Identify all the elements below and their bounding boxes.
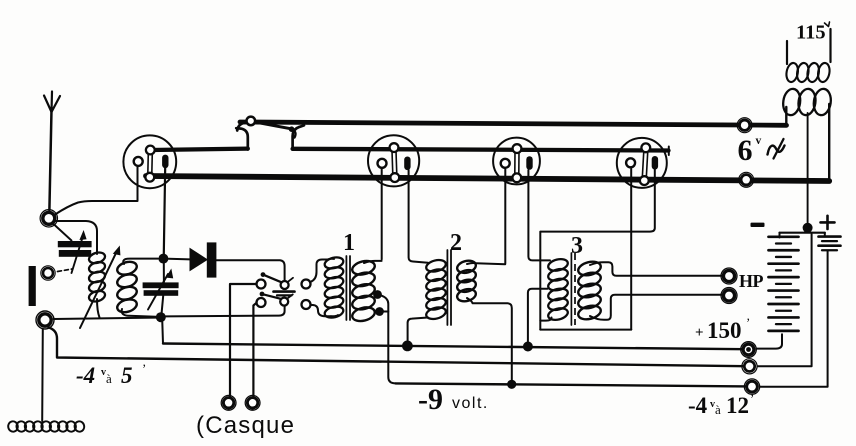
wire -9 volt line xyxy=(396,383,749,386)
wire V3 grid down xyxy=(504,169,506,264)
switch J1 upper right contact xyxy=(281,281,289,289)
switch J1 lower tick xyxy=(288,294,293,298)
coupling arrow L1-L2 xyxy=(80,252,117,328)
svg-text:volt.: volt. xyxy=(452,395,489,412)
switch J1 lower left contact xyxy=(257,298,266,307)
tube V1 xyxy=(123,135,176,188)
capacitor C2 bottom plate xyxy=(144,290,179,296)
transformer 2 core xyxy=(446,250,448,325)
wire T1 secondary top to V2 grid xyxy=(364,261,382,263)
node battery center tap xyxy=(803,223,813,233)
switch J1 lower blade xyxy=(263,294,281,299)
wire B+ node to T3 primary xyxy=(528,289,548,342)
svg-text:-4: -4 xyxy=(76,363,95,388)
wire battery top bar xyxy=(780,232,825,234)
wire V4 grid down box right edge xyxy=(630,169,632,330)
transformer 2 primary xyxy=(425,258,447,273)
terminal HP lower xyxy=(723,290,734,301)
wire C2 bottom to node B xyxy=(162,296,164,313)
terminal HP upper xyxy=(723,270,734,281)
wire middle bus right end tick xyxy=(668,147,670,156)
wire middle filament bus right segment xyxy=(293,149,669,151)
capacitor C1 dashed link to spare terminal xyxy=(58,269,73,272)
svg-text:12: 12 xyxy=(726,393,749,418)
capacitor C1 arrow xyxy=(72,236,84,273)
terminal T1 primary upper xyxy=(302,280,311,289)
svg-text:6: 6 xyxy=(738,134,753,167)
terminal T1 primary lower xyxy=(302,300,311,309)
terminal spare earth xyxy=(43,268,53,278)
svg-text:’: ’ xyxy=(746,315,750,330)
wire antenna terminal to L1 top xyxy=(56,221,98,254)
wire L2 bottom to node B xyxy=(122,309,156,317)
battery bias small stack xyxy=(819,235,841,238)
transformer 2 secondary xyxy=(456,259,477,275)
svg-text:à: à xyxy=(106,371,112,386)
tube V3 xyxy=(493,138,540,185)
wire top bus left end curl xyxy=(237,123,246,131)
transformer 3 primary xyxy=(547,257,569,272)
svg-text:1: 1 xyxy=(343,230,355,256)
capacitor C1 top plate xyxy=(58,241,92,247)
wire D1 to switch upper contact xyxy=(217,260,285,281)
diode D1 triangle xyxy=(190,248,209,272)
inductor L2 secondary coil xyxy=(116,260,139,277)
node A junction xyxy=(158,254,168,264)
wire tap dot lower stub xyxy=(381,311,388,313)
transformer 1 secondary tap dot upper xyxy=(373,290,382,299)
switch J1 link bars xyxy=(274,290,295,293)
svg-text:+: + xyxy=(695,325,704,341)
node B junction xyxy=(156,312,166,322)
wire bottom bus right end up to 115V secondary xyxy=(828,104,830,181)
wire top bus right end up to 115V secondary xyxy=(785,107,787,126)
wire +150 line xyxy=(163,344,744,350)
transformer 1 secondary xyxy=(351,259,376,277)
wire box jog to T3 primary bottom xyxy=(540,318,551,321)
wire T3 secondary top to HP upper xyxy=(590,262,722,276)
capacitor C2 top plate xyxy=(143,282,179,288)
switch S1 left stub hook xyxy=(236,128,248,149)
svg-text:’: ’ xyxy=(750,391,754,406)
terminal +150 xyxy=(743,344,754,355)
transformer 115 secondary xyxy=(782,88,802,116)
tube V4 xyxy=(617,138,667,188)
terminal casque right xyxy=(247,398,257,408)
wire T1 primary upper lead xyxy=(310,260,327,283)
wire earth terminal down xyxy=(41,329,44,421)
transformer 1 core xyxy=(345,256,347,320)
wire earth terminal to node B xyxy=(54,318,157,319)
svg-text:(Casque: (Casque xyxy=(196,412,295,439)
terminal minus battery xyxy=(744,361,754,371)
wire node A to C2 top xyxy=(163,263,165,282)
wire minus line from earth terminal xyxy=(49,328,745,367)
node B+ junction V3 xyxy=(523,342,533,352)
chassis bar xyxy=(29,266,36,306)
wire T1 primary bottom hook xyxy=(331,315,338,316)
transformer 115 lead left xyxy=(786,41,788,64)
node B+ junction V2 xyxy=(402,341,413,352)
label plus xyxy=(821,221,835,224)
node -9v junction xyxy=(507,380,516,389)
wire middle filament bus left segment xyxy=(152,149,248,150)
switch S1 pivot xyxy=(247,117,256,126)
svg-text:HP: HP xyxy=(739,271,764,291)
wire bias terminal to small battery xyxy=(760,251,828,387)
svg-text:-9: -9 xyxy=(418,383,443,416)
transformer 3 core xyxy=(570,253,572,325)
switch J1 upper left contact xyxy=(257,280,266,289)
switch J1 upper tick xyxy=(288,278,293,282)
wire node A to D1 xyxy=(168,258,190,261)
svg-text:-4: -4 xyxy=(688,393,708,418)
terminal 6V lower xyxy=(741,175,751,185)
wire antenna terminal to V1 grid xyxy=(55,167,138,215)
wire small battery top link xyxy=(824,233,826,237)
ground xyxy=(7,420,19,432)
wire L2 top to node A xyxy=(123,259,158,264)
wire node B to switch lower contact xyxy=(166,306,285,316)
wire J1 upper left to casque terminal xyxy=(230,284,257,396)
svg-text:115: 115 xyxy=(796,22,826,44)
transformer 1 primary xyxy=(324,256,345,271)
capacitor C1 bottom plate xyxy=(59,250,91,257)
wire T3 secondary bottom to HP lower xyxy=(590,295,722,320)
antenna terminal xyxy=(43,212,55,224)
wire T1 tap to -9v line xyxy=(381,296,396,384)
wire antenna terminal to C1 xyxy=(54,224,72,241)
wire T1 primary top hook xyxy=(327,258,334,261)
switch S1 blade tip xyxy=(289,126,295,132)
wire V4 plate to box top xyxy=(541,169,655,232)
wire T2 secondary bottom to -9v node xyxy=(467,298,512,380)
battery HT main stack xyxy=(769,235,799,238)
capacitor C2 arrow xyxy=(148,274,168,310)
wire V3 plate to T3 primary top xyxy=(528,170,550,260)
inductor L1 antenna coil xyxy=(88,251,107,265)
terminal earth xyxy=(39,314,51,326)
wire box bottom edge xyxy=(540,329,631,331)
wire T2 secondary top to V3 grid xyxy=(467,263,505,264)
transformer 115 primary xyxy=(785,62,799,83)
svg-text:à: à xyxy=(715,402,721,417)
wire bottom filament bus xyxy=(146,176,829,181)
wire J1 lower left to casque terminal xyxy=(253,303,256,396)
wire L1 bottom to earth wire xyxy=(97,299,100,318)
switch S1 right stub hook xyxy=(293,125,304,149)
terminal bias xyxy=(747,381,758,392)
wire battery top left drop xyxy=(779,233,781,238)
wire T1 primary lower lead xyxy=(311,305,332,316)
wire V2 plate to T2 primary top xyxy=(409,170,428,263)
terminal casque left xyxy=(223,398,233,408)
transformer 3 secondary xyxy=(577,260,602,278)
wire minus terminal to battery top xyxy=(758,234,812,366)
switch J1 upper blade xyxy=(264,275,282,282)
wire node B down to +150 line xyxy=(161,322,164,344)
wire V1 plate down to node A xyxy=(164,167,165,255)
diode D1 bar xyxy=(207,242,217,277)
label minus xyxy=(751,223,765,227)
transformer 1 secondary tap dot lower xyxy=(375,307,384,316)
switch S1 blade xyxy=(254,122,292,129)
antenna xyxy=(44,92,60,113)
switch J1 lower right contact xyxy=(280,298,288,306)
terminal 6V upper xyxy=(739,120,749,130)
wire V2 grid down xyxy=(381,169,383,259)
transformer 115 lead right xyxy=(829,29,831,62)
svg-text:150: 150 xyxy=(707,318,742,343)
wire 115 center tap xyxy=(807,113,809,224)
svg-text:’: ’ xyxy=(142,361,146,376)
svg-text:3: 3 xyxy=(571,233,583,259)
wire box left edge xyxy=(539,232,541,330)
tube V2 xyxy=(368,135,419,186)
svg-text:5: 5 xyxy=(121,363,133,388)
wire battery bottom to +150 terminal xyxy=(757,334,783,348)
wire top filament bus (6V line A) xyxy=(240,122,787,125)
wire T2 primary bottom to B+ node xyxy=(408,318,428,342)
svg-text:v: v xyxy=(756,135,762,147)
